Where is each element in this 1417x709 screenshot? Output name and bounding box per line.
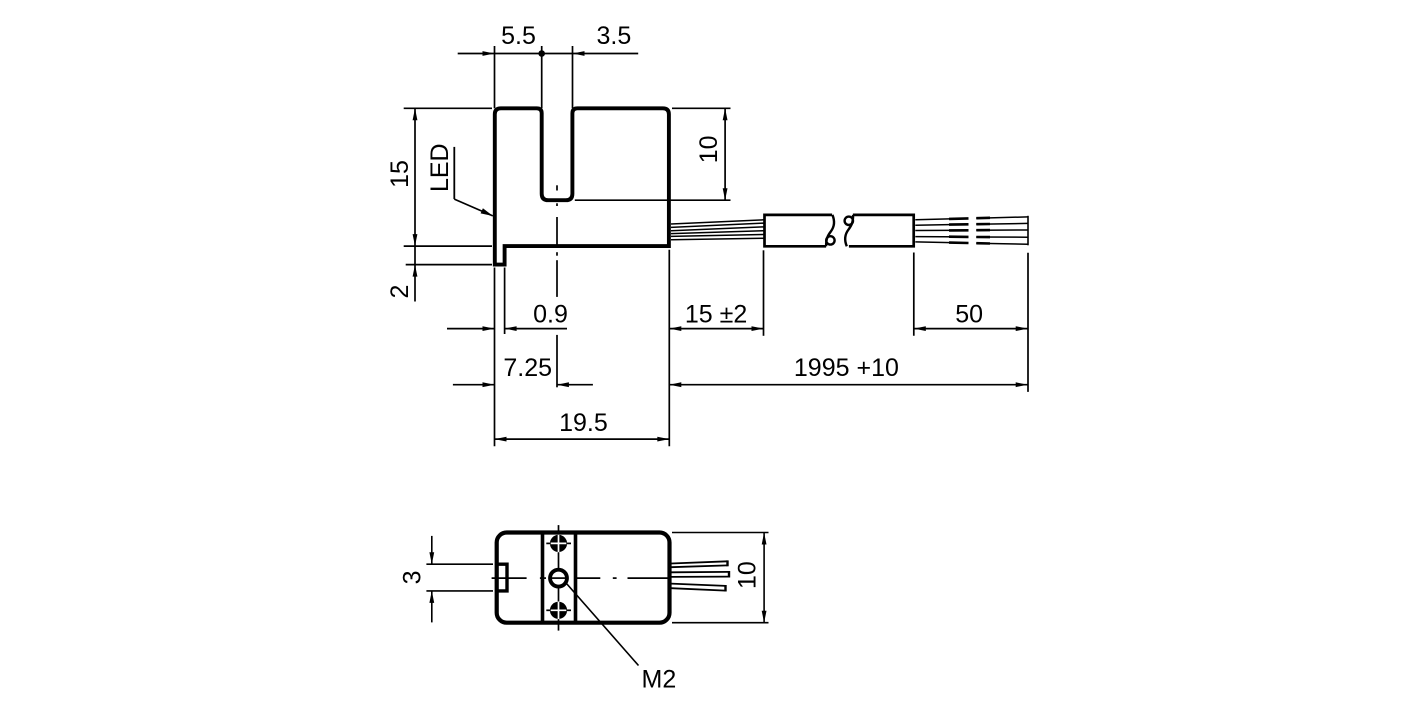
svg-text:3.5: 3.5 xyxy=(597,22,632,50)
svg-text:M2: M2 xyxy=(642,666,677,694)
svg-text:15: 15 xyxy=(386,160,414,188)
svg-text:7.25: 7.25 xyxy=(503,354,552,382)
svg-text:19.5: 19.5 xyxy=(559,409,608,437)
svg-text:10: 10 xyxy=(695,135,723,163)
svg-text:5.5: 5.5 xyxy=(501,22,536,50)
svg-text:50: 50 xyxy=(955,300,983,328)
svg-text:15 ±2: 15 ±2 xyxy=(685,300,747,328)
svg-text:3: 3 xyxy=(399,570,427,584)
svg-text:1995 +10: 1995 +10 xyxy=(794,354,899,382)
svg-text:2: 2 xyxy=(386,285,414,299)
svg-text:0.9: 0.9 xyxy=(533,300,568,328)
svg-text:10: 10 xyxy=(734,561,762,589)
svg-text:LED: LED xyxy=(426,143,454,192)
